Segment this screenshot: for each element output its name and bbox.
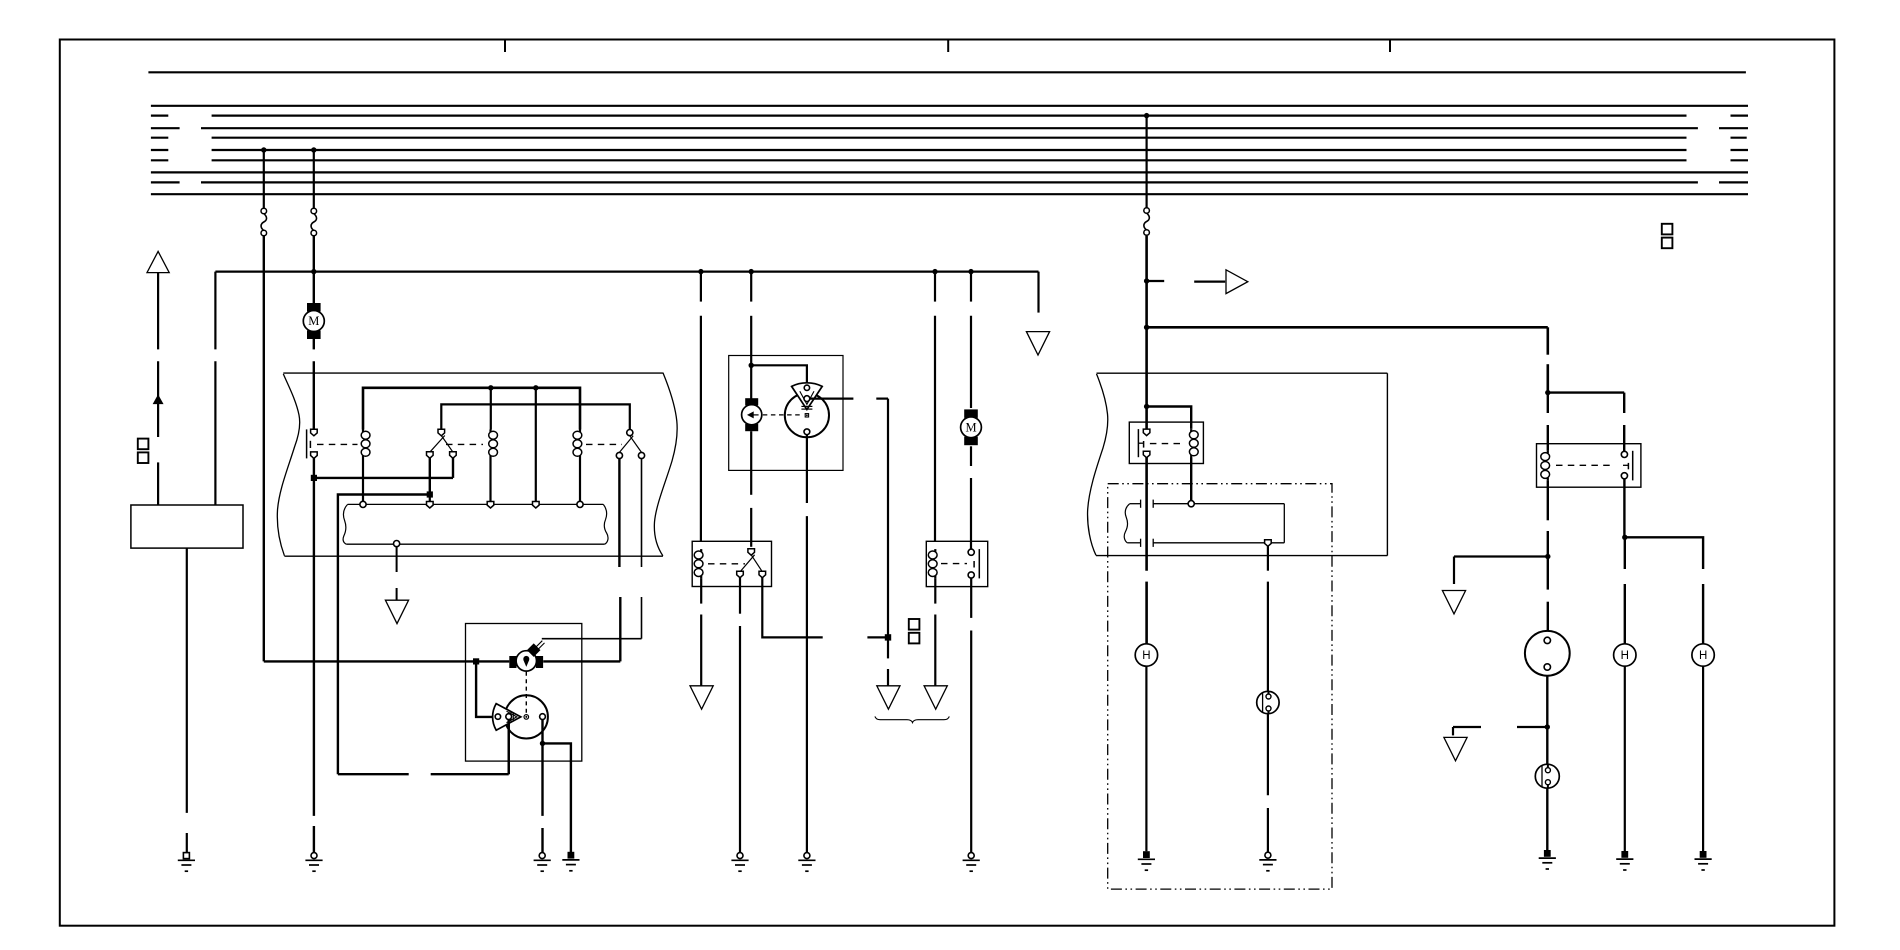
wire A R3 to ignition power (618, 459, 620, 567)
relay panel bottom edge (284, 555, 663, 557)
connector strip top edge (348, 503, 604, 505)
relay R2 coil (489, 430, 491, 433)
bus wire 5 (212, 137, 1687, 139)
distributor circle (1525, 631, 1570, 676)
EFI relay contact top (1621, 451, 1627, 457)
main relay contact top pin (1143, 429, 1150, 436)
bus wire 4 right stub (1719, 127, 1748, 129)
wire M2 to relay contact (970, 446, 972, 466)
relay R2 contact left pin (427, 452, 434, 459)
EFI relay coil (1547, 451, 1549, 454)
fuse box (dashed-area box) (131, 505, 243, 548)
ECM strip left torn edge (1124, 504, 1129, 543)
relay R3 dashed link (586, 443, 622, 445)
wire cam bottom drop (806, 435, 808, 503)
wire R1 junction to ground G2 (313, 478, 315, 816)
node bus junction fuse F1 (261, 147, 266, 152)
relay R1 dashed link (317, 443, 358, 445)
coil symbol P1 (1257, 691, 1279, 713)
key to rotor dashed (525, 672, 527, 713)
wire R2 coil to strip pin (489, 458, 491, 501)
connector strip left torn edge (343, 504, 348, 544)
node main relay branch junction (1144, 404, 1149, 409)
ECM strip bottom edge (1127, 542, 1140, 544)
ground arrow A3 (924, 686, 947, 709)
wire F2 to motor M1 (313, 236, 315, 303)
connector squares pair left (138, 439, 149, 450)
wiper assembly box (729, 356, 843, 471)
ground arrow A1 (690, 686, 713, 709)
wire R3 coil to strip pin (579, 458, 581, 501)
wire RW right contact out (762, 577, 822, 637)
right panel left torn edge (1088, 374, 1108, 555)
relay panel right torn edge (654, 373, 677, 556)
starter relay RS contact bottom (968, 572, 974, 578)
wiper relay RW contact right (759, 571, 766, 578)
coil symbol P2 (1535, 764, 1559, 788)
strip pin bottom (394, 541, 400, 547)
ignition rotor wedge bars (510, 712, 512, 721)
wire wiper feed to motor (750, 365, 752, 399)
wire F3 main feed (1145, 236, 1148, 407)
node feed bar1 junction strip pin (533, 385, 538, 390)
relay R2 coil riser (490, 388, 492, 430)
bus wire 9 (201, 181, 1698, 183)
ground arrow A2 (877, 686, 900, 709)
relay R2 pivot pin (438, 429, 445, 436)
wire main relay coil to ECM pin (1190, 458, 1192, 501)
main relay plate bar (1137, 429, 1139, 457)
right panel bottom edge (1096, 555, 1387, 557)
lamp H3 (1692, 644, 1714, 666)
wire junction to arrow A2 (887, 637, 889, 658)
starter relay RS contact top (968, 549, 974, 555)
wire H lamps link (1625, 537, 1703, 569)
starter relay RS box (926, 541, 987, 586)
wire M1 to relay R1 (313, 339, 315, 349)
relay panel left torn edge (277, 374, 299, 556)
connector strip right torn edge (603, 504, 608, 544)
wiper motor arrow (748, 412, 753, 417)
starter relay RS coil tail (934, 578, 936, 603)
node ignition feed junction (473, 658, 479, 664)
ground G11 (1621, 851, 1628, 858)
wire main output (1145, 457, 1148, 570)
wiper relay RW coil tail (700, 578, 702, 603)
ignition rotor circle (505, 695, 548, 738)
relay R2 blade (441, 436, 453, 453)
ignition rotor wedge inner (507, 711, 517, 722)
wire R1 contact to junction (313, 458, 315, 478)
wire panel feed bar 1 (363, 388, 580, 430)
node junction main feed / arrow branch (1144, 278, 1149, 283)
main relay contact bottom pin (1143, 451, 1150, 458)
arrow page continuation right (1226, 270, 1248, 294)
wire to ignition coil sym (1546, 727, 1548, 764)
bus wire 7 left stub (151, 159, 168, 161)
starter relay RS dashed link (941, 563, 967, 565)
wire F2 drop upper (313, 150, 315, 208)
node bus junction fuse F2 (311, 147, 316, 152)
wiper cam center (805, 414, 808, 417)
svg-text:H: H (1142, 650, 1150, 662)
ground G7 (968, 853, 974, 859)
bus wire 1 (148, 71, 1746, 73)
ECM strip top edge (1130, 503, 1141, 505)
wire arrow column lower (157, 462, 159, 505)
wiper cam wedge inner (800, 391, 814, 404)
wiper cam bottom contact (804, 429, 810, 435)
wire EFI rail (1147, 326, 1548, 329)
connector squares pair top right (1662, 224, 1673, 235)
wire H2 drop (1624, 537, 1626, 569)
EFI relay contact bottom (1621, 473, 1627, 479)
wire cam contact2 out (810, 398, 854, 400)
wire arrow column upper (157, 273, 159, 350)
motor M2 starter (964, 409, 978, 418)
relay R2 dashed link (446, 443, 483, 445)
bus wire 7 (212, 159, 1687, 161)
wire tach branch (1454, 555, 1548, 557)
wire strip pin riser (535, 388, 537, 502)
bus wire 5 left stub (151, 137, 168, 139)
relay R1 contact bottom pin (311, 452, 318, 459)
wire ignition feed horizontal (264, 660, 510, 662)
wire wiper col A (700, 272, 702, 302)
ground G2 (311, 853, 317, 859)
relay R3 blade (630, 436, 642, 453)
strip pin 2 (427, 502, 434, 509)
wire H1 to ground G8 (1145, 666, 1147, 851)
starter relay RS coil (934, 549, 936, 552)
ECM strip right edge (1283, 504, 1285, 543)
ignition rotor right contact (540, 714, 546, 720)
ground G1 (183, 853, 189, 859)
wiper cam wedge (792, 383, 823, 410)
node EFI branch junction (1545, 390, 1550, 395)
wire starter coil col (934, 272, 936, 302)
wire ECM pin out drop (1267, 546, 1269, 571)
bus wire 2 (151, 105, 1748, 107)
strip pin 4 (533, 502, 540, 509)
node rail junction starter motor col (968, 269, 973, 274)
wire fuse box to ground G1 (186, 548, 188, 813)
ignition rotor center (524, 715, 529, 720)
wire R2 left contact drop (429, 458, 431, 495)
wiper motor dash link (763, 414, 803, 416)
node rail junction at F2 (311, 269, 316, 274)
bus wire 4 left stub (151, 127, 180, 129)
relay R1 contact plate bar (306, 429, 308, 458)
EFI relay box (1537, 444, 1641, 488)
wire EFI coil riser (1547, 393, 1549, 413)
wire distributor out (1546, 676, 1548, 727)
node ignition output junction (540, 741, 545, 746)
ECM strip pass ticks top (1140, 500, 1142, 508)
connector strip bottom edge (346, 543, 604, 545)
ECM strip pin coil (1188, 501, 1194, 507)
relay R1 coil (362, 430, 364, 433)
node rail junction wiper col A (698, 269, 703, 274)
EFI relay dashed link (1556, 464, 1614, 466)
svg-text:M: M (308, 314, 319, 328)
starter relay RS plate bar (978, 549, 980, 578)
relay R3 contact left pin (616, 452, 622, 458)
wire EFI rail drop (1547, 327, 1550, 354)
key cylinder body (516, 651, 536, 671)
wire ignition feed to rotor contact (476, 661, 493, 717)
wire H3 to ground G12 (1702, 666, 1704, 851)
wire washer link left-down (338, 495, 430, 775)
wire ign contact2 drop (508, 720, 510, 775)
wire F1 drop to ignition (263, 236, 265, 662)
ground arrow P2b (1444, 737, 1467, 760)
wire panel feed bar 2 (441, 404, 630, 429)
lamp H2 (1614, 644, 1636, 666)
key hatch diagonal (535, 641, 543, 649)
wire power rail (215, 271, 1038, 273)
wire rail left drop to fuse box (214, 272, 216, 350)
main relay coil (1190, 429, 1192, 432)
wiper cam contact 2 (804, 396, 810, 402)
right panel right edge (1386, 373, 1388, 555)
wiper relay RW contact left (737, 571, 744, 578)
wire coil branch left (1453, 726, 1481, 728)
key cylinder left terminal (509, 656, 516, 668)
ignition rotor contact 2 (506, 714, 512, 720)
ground G6 (804, 853, 810, 859)
distributor inner contact bottom (1544, 664, 1550, 670)
key cylinder right terminal (536, 656, 543, 668)
wire main feed to contact (1145, 407, 1148, 430)
node junction wiper sense (885, 634, 891, 640)
bus wire 3 (212, 114, 1687, 116)
distributor inner contact top (1544, 637, 1550, 643)
wire stub to page arrow (1147, 280, 1165, 282)
wire coil branch stub (1517, 726, 1547, 728)
right panel top edge (1097, 372, 1388, 374)
EFI relay actuator tick (1627, 463, 1629, 469)
svg-text:H: H (1621, 650, 1629, 662)
bus wire 5 right stub (1731, 137, 1747, 139)
ground G12 (1700, 851, 1707, 858)
lamp H1 (1135, 644, 1157, 666)
wiper motor top pad (745, 398, 758, 405)
wire right pad to wire A (542, 660, 545, 662)
EFI relay plate bar (1632, 451, 1634, 481)
relay R3 pivot pin (627, 430, 633, 436)
wire R1 coil to strip pin (362, 458, 364, 501)
wire P1 to ground G9 (1267, 714, 1269, 795)
wire starter motor col upper (970, 272, 972, 302)
bus wire 3 left stub (151, 114, 168, 116)
node bus junction fuse F3 (1144, 113, 1149, 118)
starter relay RS actuator bar (973, 561, 975, 568)
bus wire 8 (151, 171, 1748, 173)
node rail junction starter coil col (932, 269, 937, 274)
wiper motor bottom pad (745, 424, 758, 431)
wire ign junction to G4 (543, 743, 571, 852)
main relay actuator bar (1143, 441, 1145, 448)
bus wire 9 left stub (151, 181, 180, 183)
wire R1-R2 cross link (314, 477, 453, 479)
bus wire 7 right stub (1731, 159, 1749, 161)
wire main relay coil branch (1147, 407, 1192, 429)
wire rail end drop (1037, 272, 1039, 313)
main relay dashed link (1150, 443, 1181, 445)
bus wire 6 left stub (151, 149, 168, 151)
ECM strip pass ticks bottom (1140, 539, 1142, 547)
wire RS contact to ground G7 (970, 578, 972, 618)
wire F1 drop upper (263, 150, 265, 208)
strip pin 5 (577, 501, 583, 507)
motor M1 washer motor (307, 303, 321, 312)
wiper motor body (742, 405, 762, 425)
svg-text:M: M (965, 421, 976, 435)
ground G9 (1265, 852, 1271, 858)
bus wire 6 right stub (1731, 149, 1749, 151)
wire EFI coil tail (1547, 480, 1549, 520)
wiper cam contact 1 (804, 385, 809, 390)
node junction R1/R2 link (311, 475, 317, 481)
wiper cam contact bars (801, 405, 812, 407)
wire arrow column mid (157, 361, 159, 437)
wiper relay RW pivot pin (748, 549, 755, 556)
ground G5 (737, 853, 743, 859)
ground arrow under strip (385, 600, 408, 623)
main relay box (1129, 422, 1203, 463)
ground G8 (1143, 851, 1150, 858)
ground arrow P1b (1442, 591, 1465, 614)
direction arrowhead on wire (154, 395, 163, 403)
wire B R3 to key diag (641, 459, 643, 567)
wire H2 to ground G11 (1624, 666, 1626, 851)
wire wiper feed to cam (751, 365, 807, 384)
relay panel top edge (283, 372, 663, 374)
fuse F3 (1144, 208, 1150, 214)
wiper relay RW coil (700, 549, 702, 552)
top border tick 1 (504, 41, 506, 53)
ECM strip pin out (1265, 540, 1272, 547)
top border tick 2 (947, 41, 949, 53)
node junction main feed / EFI rail (1144, 325, 1149, 330)
bus wire 9 right stub (1719, 181, 1748, 183)
bus wire 10 (151, 193, 1748, 195)
ground G10 (1544, 850, 1551, 857)
wire EFI branch to contact (1548, 391, 1624, 393)
fuse F1 (261, 208, 267, 214)
node H lamps junction (1622, 535, 1627, 540)
wire RW left contact to ground G5 (739, 577, 741, 613)
ignition rotor wedge (493, 704, 521, 731)
strip pin 3 (487, 502, 494, 509)
node rail junction wiper col B (749, 269, 754, 274)
relay R1 contact actuator bar (309, 441, 311, 448)
wire motor to relay pivot (750, 431, 752, 495)
wire ign junction to G3 (541, 743, 543, 816)
node feed bar1 junction coil R2 (488, 385, 493, 390)
wiper cam circle (785, 393, 829, 437)
wiper relay RW blade (751, 555, 762, 572)
ignition rotor contact 1 (495, 714, 500, 719)
wire washer link bottom run (338, 773, 409, 775)
ignition switch box (466, 624, 582, 762)
bus wire 3 right stub (1731, 114, 1749, 116)
wire EFI contact output (1623, 479, 1625, 537)
relay R2 contact right pin (450, 452, 457, 459)
svg-text:H: H (1699, 650, 1707, 662)
wire strip bottom pin drop (396, 547, 398, 572)
connector squares pair mid (909, 619, 920, 630)
brace under arrows (875, 716, 949, 722)
relay R1 contact top pin (311, 429, 318, 436)
bus wire 6 (212, 149, 1687, 151)
top border tick 3 (1389, 41, 1391, 53)
strip pin 1 (360, 501, 366, 507)
wire P2 to ground G10 (1546, 788, 1548, 850)
relay R3 coil (579, 430, 581, 433)
wiper relay RW box (692, 541, 771, 586)
ground G3 (539, 853, 545, 859)
ground arrow under rail end (1026, 332, 1049, 355)
wire ign right contact drop (541, 720, 543, 744)
key head (528, 644, 540, 656)
ECM dash-dot border (1108, 484, 1332, 889)
node coil branch junction (1545, 724, 1550, 729)
wire wiper col B upper (750, 272, 752, 302)
arrow page continuation up (147, 251, 169, 272)
fuse F2 (311, 208, 317, 214)
keyhole (523, 656, 529, 662)
wire R2 contact to strip pin (429, 495, 431, 502)
node wiper feed junction (749, 363, 754, 368)
node junction washer link (427, 491, 433, 497)
relay R3 contact right pin (638, 452, 644, 458)
wire F3 drop upper (1145, 116, 1147, 208)
ground G4 (568, 852, 575, 859)
bus wire 4 (201, 127, 1698, 129)
wiper relay RW dashed link (708, 563, 745, 565)
node tach branch junction (1545, 554, 1550, 559)
